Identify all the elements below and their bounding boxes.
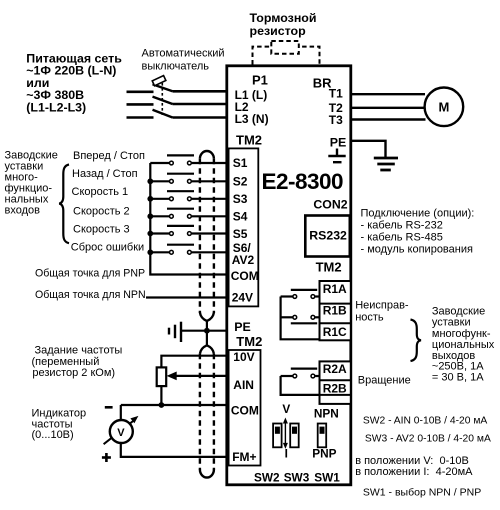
switch S6 (Сброс ошибки) (150, 245, 227, 255)
svg-text:- кабель RS-485: - кабель RS-485 (361, 232, 443, 244)
svg-text:Сброс ошибки: Сброс ошибки (71, 242, 144, 254)
svg-text:резистор 2 кОм): резистор 2 кОм) (32, 367, 115, 379)
svg-text:ТМ2: ТМ2 (236, 334, 262, 349)
voltmeter PV1 (110, 420, 133, 443)
svg-text:AV2: AV2 (232, 253, 255, 267)
resistor R-brake (dashed box) (271, 41, 299, 54)
svg-text:(L1-L2-L3): (L1-L2-L3) (26, 100, 86, 114)
brace right (outputs) (411, 320, 422, 362)
wire: AIN to wiper (176, 375, 227, 377)
svg-text:SW2: SW2 (254, 470, 280, 484)
svg-text:S1: S1 (233, 156, 248, 170)
svg-text:S5: S5 (233, 227, 248, 241)
wire: COM to voltmeter top (120, 405, 122, 421)
label: Подключение (опции) (361, 208, 475, 256)
svg-text:Тормозной: Тормозной (250, 11, 317, 25)
svg-text:Автоматический: Автоматический (142, 48, 225, 60)
label: Автоматический выключатель (142, 48, 225, 73)
circuit breaker QF1 blade pole3 (153, 110, 173, 118)
ground symbol (external earth) (374, 158, 398, 170)
svg-text:PE: PE (234, 320, 251, 334)
input row labels (35, 150, 146, 301)
svg-text:V: V (282, 402, 290, 416)
svg-text:Задание частоты: Задание частоты (35, 345, 123, 357)
svg-text:ность: ность (355, 312, 384, 324)
svg-text:входов: входов (5, 205, 41, 217)
svg-text:(переменный: (переменный (32, 356, 100, 368)
svg-text:ТМ2: ТМ2 (316, 260, 342, 275)
svg-text:Скорость 1: Скорость 1 (72, 186, 129, 198)
svg-text:SW1 - выбор NPN / PNP: SW1 - выбор NPN / PNP (363, 486, 481, 498)
switch SW3 (V/I) (290, 424, 299, 448)
svg-text:- модуль копирования: - модуль копирования (361, 244, 473, 256)
wire: phase 2 input left segment (127, 103, 154, 106)
inverter block U1 E2-8300 (227, 66, 351, 485)
relay terminal box R2 (320, 361, 351, 404)
svg-text:R2B: R2B (323, 382, 347, 396)
svg-text:R1B: R1B (323, 304, 347, 318)
svg-text:(0...10В): (0...10В) (32, 429, 74, 441)
svg-text:L3 (N): L3 (N) (235, 112, 269, 126)
svg-text:Общая точка для NPN: Общая точка для NPN (35, 289, 146, 301)
label: Индикатор частоты (32, 408, 87, 442)
wire: phase 1 input left segment (127, 91, 154, 94)
svg-text:COM: COM (231, 269, 259, 283)
svg-text:S4: S4 (233, 210, 248, 224)
svg-text:FM+: FM+ (232, 450, 256, 464)
svg-text:24V: 24V (232, 290, 253, 304)
terminal strip TM2 upper box (229, 148, 259, 306)
switch S2 (Назад/Стоп) (150, 174, 227, 184)
input common bus (PNP) (150, 163, 227, 275)
relay contact K1B (NC) (291, 322, 317, 324)
wire: phase 3 to L3 (173, 116, 228, 119)
wire: PE to external ground (351, 141, 386, 157)
svg-text:T1: T1 (329, 87, 343, 101)
svg-text:P1: P1 (252, 73, 268, 88)
relay contact K2A (NO) (291, 368, 317, 370)
svg-text:NPN: NPN (314, 407, 339, 421)
label: Тормозной резистор (250, 11, 317, 38)
svg-text:Назад / Стоп: Назад / Стоп (72, 168, 138, 180)
svg-text:CON2: CON2 (313, 198, 347, 212)
wire: T3 to motor (351, 118, 426, 120)
svg-text:Скорость 2: Скорость 2 (73, 205, 130, 217)
switch S5 (Скорость 3) (150, 226, 227, 236)
svg-text:R2A: R2A (323, 362, 347, 376)
circuit breaker QF1 tie bar (dashed) (161, 83, 163, 115)
wire: T2 to motor (351, 107, 424, 109)
svg-text:Скорость 3: Скорость 3 (73, 223, 130, 235)
terminal strip TM2 lower box (229, 350, 261, 466)
svg-text:Подключение (опции):: Подключение (опции): (361, 208, 475, 220)
svg-text:E2-8300: E2-8300 (262, 169, 344, 194)
brace left (inputs) (59, 165, 69, 244)
label: Питающая сеть (26, 52, 122, 115)
svg-text:RS232: RS232 (309, 228, 347, 242)
minus sign (105, 406, 113, 409)
svg-text:T3: T3 (329, 113, 343, 127)
wiper arrowhead (167, 372, 177, 381)
svg-text:SW3 - AV2 0-10В / 4-20 мА: SW3 - AV2 0-10В / 4-20 мА (365, 434, 491, 445)
svg-text:Неисправ-: Неисправ- (355, 300, 409, 312)
svg-text:TM2: TM2 (236, 133, 262, 148)
svg-text:M: M (439, 100, 450, 115)
wire: 10V to potentiometer (161, 356, 227, 368)
plus sign (102, 453, 111, 462)
switch S3 (Скорость 1) (150, 191, 227, 201)
svg-text:выключатель: выключатель (142, 60, 210, 72)
wire: NPN common to 24V (146, 296, 227, 298)
svg-text:I: I (285, 447, 288, 461)
shield drain wire to PE (206, 321, 208, 345)
voltmeter adjust arrow (104, 420, 135, 445)
svg-text:- кабель RS-232: - кабель RS-232 (361, 220, 443, 232)
circuit breaker QF1 blade pole1 (153, 84, 173, 91)
wire: relay R1 common bus (281, 297, 320, 340)
wire: phase 3 input left segment (127, 116, 154, 119)
wire: PE row (181, 330, 227, 332)
shield oval 2 (analog cable) (200, 345, 207, 354)
bottom right annotations (355, 415, 491, 498)
svg-text:в положении I: 4-20мА: в положении I: 4-20мА (355, 466, 473, 478)
wire: phase 2 to L2 (173, 103, 228, 106)
svg-text:COM: COM (231, 403, 259, 417)
svg-text:резистор: резистор (250, 24, 307, 38)
svg-text:AIN: AIN (233, 378, 254, 392)
wire: phase 1 to L1 (173, 90, 228, 93)
svg-text:SW3: SW3 (284, 470, 310, 484)
relay terminal box R1 (320, 281, 351, 340)
wire: potentiometer bottom to COM (160, 386, 162, 405)
svg-text:Вращение: Вращение (358, 375, 411, 387)
svg-text:S3: S3 (233, 192, 248, 206)
switch S1 (Вперед/Стоп) (150, 155, 227, 165)
ground symbol (inside block, below PE) (328, 149, 345, 163)
wire: dashed P1 riser (253, 47, 320, 65)
circuit breaker QF1 blade pole2 (153, 97, 173, 104)
label: Заводские уставки многофункциональных выходов (432, 306, 495, 384)
chassis ground symbol (left of PE) (169, 322, 181, 342)
switch S4 (Скорость 2) (150, 209, 227, 219)
label: Неисправность (355, 300, 409, 324)
connector RS232 box (305, 216, 350, 257)
wire: T1 to motor (351, 93, 425, 95)
svg-text:S2: S2 (233, 175, 248, 189)
svg-text:Вперед / Стоп: Вперед / Стоп (73, 150, 145, 162)
relay contact K1A (NO) (291, 289, 317, 291)
svg-text:V: V (117, 427, 125, 439)
motor M1 (425, 88, 464, 127)
wire: COM row (121, 404, 227, 406)
svg-text:PE: PE (330, 136, 347, 150)
switch SW2 (V/I) (273, 424, 282, 448)
switch SW1 (NPN/PNP) (318, 424, 327, 448)
svg-text:PNP: PNP (312, 447, 336, 461)
svg-text:= 30 В, 1А: = 30 В, 1А (432, 372, 484, 384)
shield oval 1 (digital inputs cable) (200, 151, 214, 159)
wire: voltmeter bottom to FM+ (121, 442, 227, 457)
svg-text:SW2 - AIN 0-10В / 4-20 мА: SW2 - AIN 0-10В / 4-20 мА (363, 415, 488, 426)
junction: pot on COM wire (159, 402, 165, 408)
junction: drain on PE wire (204, 328, 210, 334)
svg-text:R1A: R1A (323, 282, 347, 296)
svg-text:R1C: R1C (323, 325, 347, 339)
junction dots on bus (147, 178, 153, 184)
label: Заводские уставки многофункциональных входов (5, 150, 58, 217)
potentiometer RP1 2kOm (157, 367, 167, 386)
svg-text:10V: 10V (233, 350, 254, 364)
circuit breaker QF1 handle (152, 76, 166, 86)
wire: relay R2 common bus (281, 376, 320, 395)
V/I arrow (284, 421, 286, 445)
svg-text:SW1: SW1 (314, 470, 340, 484)
svg-text:Общая точка для PNP: Общая точка для PNP (35, 267, 145, 279)
svg-text:уставки: уставки (432, 317, 471, 329)
label: Задание частоты (32, 345, 123, 379)
